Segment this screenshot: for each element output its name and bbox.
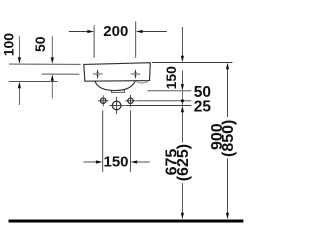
dim 200 right arrowhead bbox=[136, 30, 143, 33]
dim 50 up arrowhead bbox=[51, 74, 54, 81]
mounting hole left bbox=[98, 95, 108, 106]
svg-text:150: 150 bbox=[103, 154, 128, 171]
vertical dim column thin seg A-C bbox=[181, 91, 183, 106]
675 floor arrowhead (down) bbox=[181, 213, 184, 220]
svg-text:(625): (625) bbox=[175, 144, 192, 181]
150 top outside arrowhead (down) bbox=[181, 56, 184, 63]
floor line bbox=[9, 220, 244, 223]
bottom 150 left arrow line bbox=[83, 161, 96, 163]
dim 200 left extension line bbox=[93, 25, 95, 58]
svg-text:150: 150 bbox=[163, 66, 179, 90]
svg-text:200: 200 bbox=[103, 23, 128, 40]
ref line L2 (50) bbox=[42, 73, 80, 75]
ref line L3 (100) bbox=[9, 81, 58, 83]
900 floor arrowhead (down) bbox=[226, 213, 229, 220]
25 bottom arrowhead (up) bbox=[181, 106, 184, 113]
svg-text:50: 50 bbox=[32, 36, 48, 52]
dim 200 left arrow line bbox=[69, 31, 89, 33]
dim 50 down arrow line bbox=[51, 36, 53, 58]
900 top arrowhead (up) bbox=[226, 63, 229, 69]
svg-text:100: 100 bbox=[0, 33, 16, 57]
ref line C center hole level right bbox=[125, 105, 191, 107]
top reference line right bbox=[152, 62, 233, 64]
basin bowl arc bbox=[95, 81, 135, 91]
900 dim line lower bbox=[227, 159, 229, 214]
basin right small arc bbox=[136, 81, 147, 83]
tap hole cross left bbox=[93, 70, 103, 79]
dim 100 down arrowhead bbox=[18, 57, 21, 64]
bottom 150 left arrowhead (right) bbox=[96, 160, 103, 163]
dot between 50 and 25 bbox=[181, 99, 184, 102]
dim 200 left arrowhead bbox=[87, 30, 94, 33]
bottom 150 right arrow line bbox=[136, 161, 150, 163]
dim 100 up arrowhead bbox=[18, 82, 21, 89]
center hole bbox=[109, 97, 124, 114]
900 dim line upper bbox=[227, 69, 229, 117]
bottom 150 ext line left bbox=[102, 110, 104, 172]
vertical dim column seg2 bbox=[181, 71, 183, 85]
ref line A bowl bottom right bbox=[148, 90, 192, 92]
vertical dim column seg3 tail below C bbox=[181, 112, 183, 143]
bottom 150 right arrowhead (left) bbox=[131, 160, 138, 163]
dim 200 right arrow line bbox=[141, 31, 167, 33]
dim 50 down arrowhead bbox=[51, 57, 54, 64]
ref line L1 basin top extension left bbox=[9, 63, 81, 65]
vertical dim column seg4 below 675 text bbox=[181, 183, 183, 213]
dim 100 up arrow line bbox=[18, 88, 20, 105]
ref line B holes level right bbox=[136, 100, 191, 102]
dim 50 up arrow line bbox=[51, 80, 53, 99]
mounting hole right bbox=[125, 95, 135, 107]
bottom 150 ext line right bbox=[129, 110, 131, 172]
tap hole cross right bbox=[131, 70, 141, 79]
vertical dim column x=182.4 seg1 bbox=[181, 27, 183, 56]
dim 200 right extension line bbox=[135, 21, 137, 57]
150 bottom arrowhead (down) bbox=[181, 84, 184, 91]
washbasin body (trapezoid) bbox=[84, 63, 151, 81]
drain rectangle bbox=[111, 90, 124, 93]
svg-text:(850): (850) bbox=[220, 120, 237, 157]
svg-text:25: 25 bbox=[194, 98, 212, 115]
dim 100 down arrow line bbox=[18, 36, 20, 58]
